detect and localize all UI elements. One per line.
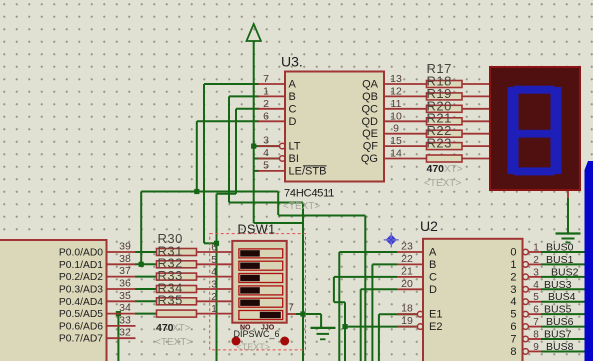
svg-text:U2: U2 (420, 218, 438, 234)
svg-text:15: 15 (390, 135, 402, 147)
svg-text:U3.: U3. (281, 54, 303, 70)
svg-text:QD: QD (362, 116, 379, 128)
svg-text:11: 11 (391, 98, 402, 110)
svg-text:DIPSWC_6: DIPSWC_6 (234, 329, 280, 339)
svg-text:<TEXT>: <TEXT> (283, 201, 320, 212)
svg-text:BUS4: BUS4 (548, 291, 576, 303)
svg-text:XT>: XT> (444, 164, 463, 175)
svg-text:QC: QC (362, 103, 379, 115)
svg-text:QA: QA (362, 79, 379, 91)
svg-text:C: C (289, 103, 297, 115)
svg-text:BUS3: BUS3 (544, 279, 572, 291)
svg-text:DSW1: DSW1 (238, 223, 276, 237)
svg-text:A: A (289, 79, 297, 91)
svg-text:4: 4 (510, 296, 516, 308)
svg-text:4: 4 (263, 147, 269, 159)
svg-text:12: 12 (390, 85, 402, 97)
svg-text:BUS8: BUS8 (546, 341, 574, 353)
svg-text:1: 1 (263, 85, 269, 97)
svg-text:A: A (429, 247, 437, 259)
svg-text:6: 6 (211, 243, 217, 254)
svg-text:5: 5 (533, 292, 539, 303)
svg-text:QE: QE (362, 128, 378, 140)
svg-text:<TEXT>: <TEXT> (424, 178, 461, 189)
svg-text:P0.5/AD5: P0.5/AD5 (59, 309, 103, 320)
svg-text:P0.0/AD0: P0.0/AD0 (59, 248, 103, 259)
svg-text:5: 5 (263, 159, 269, 171)
svg-text:470: 470 (427, 163, 445, 175)
svg-text:LT: LT (289, 141, 301, 153)
svg-text:34: 34 (119, 302, 131, 314)
svg-text:BI: BI (289, 153, 299, 165)
svg-text:BUS7: BUS7 (544, 329, 572, 341)
svg-text:R23: R23 (427, 136, 452, 151)
svg-text:QF: QF (363, 141, 379, 153)
svg-text:5: 5 (510, 309, 516, 321)
svg-text:D: D (429, 284, 437, 296)
svg-text:BUS2: BUS2 (551, 266, 579, 278)
svg-text:9: 9 (393, 123, 399, 135)
svg-text:4: 4 (533, 280, 539, 291)
svg-text:18: 18 (401, 303, 413, 315)
svg-text:37: 37 (119, 265, 131, 277)
svg-text:23: 23 (401, 241, 413, 253)
svg-text:0: 0 (510, 247, 516, 259)
svg-text:38: 38 (119, 253, 131, 265)
svg-text:BUS5: BUS5 (544, 304, 572, 316)
svg-text:P0.6/AD6: P0.6/AD6 (59, 321, 103, 332)
svg-text:D: D (289, 116, 297, 128)
svg-text:33: 33 (119, 314, 131, 326)
svg-text:8: 8 (533, 330, 539, 341)
svg-text:5: 5 (211, 255, 217, 266)
svg-text:22: 22 (401, 253, 413, 265)
svg-text:1: 1 (510, 259, 516, 271)
svg-text:39: 39 (119, 241, 131, 253)
svg-text:3: 3 (533, 267, 539, 278)
svg-text:BUS1: BUS1 (546, 254, 574, 266)
svg-text:20: 20 (401, 278, 413, 290)
svg-text:4: 4 (211, 267, 217, 278)
svg-text:QG: QG (361, 153, 378, 165)
svg-text:7: 7 (263, 73, 269, 85)
svg-text:2: 2 (533, 255, 539, 266)
svg-text:E2: E2 (429, 321, 442, 333)
svg-text:P0.7/AD7: P0.7/AD7 (59, 334, 103, 345)
svg-text:P0.4/AD4: P0.4/AD4 (59, 297, 103, 308)
svg-text:19: 19 (401, 315, 413, 327)
svg-text:BUS0: BUS0 (546, 242, 574, 254)
svg-text:9: 9 (533, 342, 539, 353)
svg-text:3: 3 (263, 135, 269, 147)
svg-text:1: 1 (211, 304, 217, 315)
svg-text:P0.3/AD3: P0.3/AD3 (59, 285, 103, 296)
svg-text:2: 2 (263, 98, 269, 110)
svg-text:B: B (289, 91, 296, 103)
svg-text:7: 7 (510, 334, 516, 346)
svg-text:10: 10 (390, 110, 402, 122)
svg-text:6: 6 (510, 321, 516, 333)
svg-text:3: 3 (510, 284, 516, 296)
svg-text:36: 36 (119, 278, 131, 290)
svg-text:8: 8 (510, 346, 516, 358)
svg-text:7: 7 (288, 303, 294, 314)
svg-text:C: C (429, 271, 437, 283)
svg-text:P0.1/AD1: P0.1/AD1 (59, 260, 103, 271)
svg-text:7: 7 (533, 317, 539, 328)
svg-text:R35: R35 (158, 293, 183, 308)
svg-text:2: 2 (211, 292, 217, 303)
svg-text:<TEXT>: <TEXT> (155, 337, 192, 348)
svg-text:LE/STB: LE/STB (289, 165, 327, 177)
svg-text:<TEXT>: <TEXT> (237, 342, 271, 352)
svg-text:P0.2/AD2: P0.2/AD2 (59, 272, 103, 283)
svg-text:3: 3 (211, 280, 217, 291)
svg-text:6: 6 (263, 110, 269, 122)
svg-text:6: 6 (533, 305, 539, 316)
svg-text:E1: E1 (429, 309, 442, 321)
svg-text:32: 32 (119, 327, 131, 339)
svg-text:74HC4511: 74HC4511 (284, 188, 334, 200)
svg-text:BUS6: BUS6 (546, 316, 574, 328)
svg-text:B: B (429, 259, 436, 271)
svg-text:14: 14 (390, 148, 402, 160)
svg-text:13: 13 (390, 73, 402, 85)
svg-text:QB: QB (362, 91, 378, 103)
svg-text:21: 21 (401, 265, 413, 277)
svg-text:XT>: XT> (172, 323, 191, 334)
svg-text:2: 2 (510, 271, 516, 283)
svg-text:35: 35 (119, 290, 131, 302)
svg-text:1: 1 (533, 243, 539, 254)
